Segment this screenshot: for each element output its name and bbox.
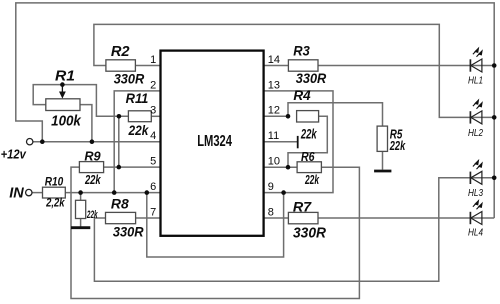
svg-text:R10: R10 xyxy=(45,177,64,189)
wire pin 9 to pin 13 xyxy=(264,91,333,193)
resistor R2 body xyxy=(106,60,135,71)
pin 11 termination bar xyxy=(297,136,299,148)
resistor R6 body xyxy=(297,162,321,173)
svg-text:22k: 22k xyxy=(389,139,406,153)
resistor R8 body xyxy=(106,212,136,223)
wire R8 right lead to pin 7 xyxy=(136,217,161,219)
svg-text:R7: R7 xyxy=(293,198,313,214)
ground under 22k shunt xyxy=(71,226,90,229)
svg-text:22k: 22k xyxy=(304,172,319,187)
wire pin 14 to R3 xyxy=(264,65,289,67)
wire R1 right terminal down to +12v rail xyxy=(80,105,92,142)
resistor R10 body xyxy=(43,187,66,198)
svg-text:R3: R3 xyxy=(293,43,310,59)
svg-text:13: 13 xyxy=(268,79,280,91)
wire R2 right lead to pin 1 xyxy=(135,65,160,67)
svg-text:6: 6 xyxy=(150,181,156,193)
wire R9 left lead down, along bottom, up to R6 right lead xyxy=(71,167,359,298)
svg-text:8: 8 xyxy=(268,206,274,218)
svg-text:R9: R9 xyxy=(84,149,100,163)
wire +12V top loop: from rail dot up-left, across top, down right side to HL4 anode lead xyxy=(16,3,494,218)
wire +12v rail to pin 4 xyxy=(33,141,161,143)
svg-text:IN: IN xyxy=(9,186,24,202)
resistor R1 (potentiometer 100k) body xyxy=(46,85,80,111)
wire R8 left lead down, along bottom, up to HL3 anode xyxy=(94,178,494,281)
svg-text:10: 10 xyxy=(268,156,280,168)
wire pin 8 to R7 xyxy=(264,217,289,219)
svg-text:HL1: HL1 xyxy=(468,75,483,87)
resistor R4 body xyxy=(297,111,319,122)
svg-text:7: 7 xyxy=(150,206,156,218)
wire R7 right lead to HL4 xyxy=(318,217,494,219)
ground under R5 xyxy=(374,170,391,173)
wire 22k shunt bottom lead to ground xyxy=(80,219,82,227)
svg-text:9: 9 xyxy=(268,181,274,193)
svg-text:1: 1 xyxy=(150,54,156,66)
svg-text:330R: 330R xyxy=(113,223,145,239)
terminal +12v xyxy=(1,139,33,162)
wire pin 10 to R6 xyxy=(264,166,298,168)
wire R5 bottom lead to ground xyxy=(382,151,384,169)
svg-text:22k: 22k xyxy=(86,209,98,221)
wire pin 2 to input node on pin 6 line xyxy=(114,91,160,193)
svg-text:R1: R1 xyxy=(55,68,75,85)
wire R2 left lead up and across top to HL2 anode xyxy=(94,24,494,117)
svg-text:12: 12 xyxy=(268,105,280,117)
svg-text:2,2k: 2,2k xyxy=(45,198,65,210)
svg-text:R6: R6 xyxy=(301,149,315,164)
wire R4 node up and across to R5 top xyxy=(288,103,383,126)
pin numbers left side xyxy=(150,54,156,219)
LED HL4 xyxy=(470,201,482,225)
wire R3 right lead to HL1 xyxy=(318,65,494,67)
resistor R7 body xyxy=(288,212,318,223)
resistor 22k shunt body (vertical) xyxy=(76,200,86,218)
svg-text:330R: 330R xyxy=(293,224,326,241)
svg-text:22k: 22k xyxy=(84,173,101,187)
LED HL2 xyxy=(470,100,482,124)
svg-text:3: 3 xyxy=(150,105,156,117)
svg-text:LM324: LM324 xyxy=(197,133,232,150)
svg-text:14: 14 xyxy=(268,54,280,66)
svg-text:R2: R2 xyxy=(111,44,130,60)
wire node R11-left down to pin 5 node xyxy=(118,116,120,167)
svg-text:11: 11 xyxy=(268,130,279,142)
svg-text:HL4: HL4 xyxy=(468,227,483,239)
wire pin 6 line from R10 right lead to IC xyxy=(65,192,160,194)
op-amp U1 LM324 body xyxy=(161,51,264,236)
svg-text:100k: 100k xyxy=(51,113,81,130)
LED HL3 xyxy=(470,160,482,184)
wire loop under IC from pin 6 node to pin 9 node xyxy=(147,193,284,257)
wire pin 11 stub xyxy=(264,141,298,143)
terminal IN xyxy=(9,186,32,202)
svg-text:330R: 330R xyxy=(114,70,145,86)
svg-text:330R: 330R xyxy=(296,70,327,86)
svg-text:22k: 22k xyxy=(128,123,150,138)
LED HL1 xyxy=(470,48,482,72)
wire R1 left terminal loop, wiper bus and into R11 node xyxy=(33,85,128,117)
pin numbers right side xyxy=(268,54,280,219)
svg-text:22k: 22k xyxy=(300,125,317,141)
resistor R3 body xyxy=(288,60,318,71)
svg-text:R8: R8 xyxy=(111,197,129,212)
wire R4 right lead loop down to pin 10 node xyxy=(288,116,327,167)
svg-text:HL3: HL3 xyxy=(468,187,483,199)
resistor R5 body (vertical) xyxy=(377,126,387,151)
wire 22k shunt top lead xyxy=(80,193,82,201)
wire R11 right lead to pin 3 xyxy=(151,115,160,117)
svg-text:4: 4 xyxy=(150,130,156,142)
svg-text:R11: R11 xyxy=(126,90,149,106)
wire IN terminal to R10 xyxy=(32,192,43,194)
svg-text:R4: R4 xyxy=(293,88,311,103)
wire pin 12 to R4 node xyxy=(264,115,288,117)
resistor R11 body xyxy=(128,111,151,122)
resistor R9 body xyxy=(79,162,103,173)
svg-text:+12v: +12v xyxy=(1,147,27,161)
svg-text:2: 2 xyxy=(150,79,156,91)
wire R9 right lead to pin 5 xyxy=(104,166,161,168)
svg-text:5: 5 xyxy=(150,156,156,168)
svg-text:HL2: HL2 xyxy=(468,127,483,139)
